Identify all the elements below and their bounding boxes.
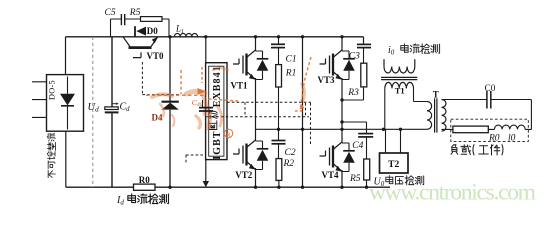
svg-text:C2: C2 — [285, 148, 296, 158]
wire VT1 emitter to node A — [255, 82, 257, 129]
transformer T (output) — [427, 90, 446, 133]
svg-text:T1: T1 — [395, 85, 405, 95]
wire top DC bus — [66, 36, 364, 38]
label 不可控整流 (uncontrolled rectifier), vertical — [47, 133, 55, 178]
label load (workpiece) — [451, 145, 458, 155]
svg-text:T2: T2 — [388, 160, 399, 170]
wire D4 column — [169, 37, 171, 187]
wire EXB column — [205, 37, 207, 183]
svg-text:R1: R1 — [285, 69, 297, 79]
wire center divider — [302, 37, 304, 187]
svg-text:T: T — [433, 90, 439, 100]
transistor VT0 (chopper) — [123, 37, 164, 61]
snubber R5 (lower right) — [349, 137, 370, 187]
svg-text:D4: D4 — [152, 113, 163, 123]
svg-text:VT0: VT0 — [147, 51, 165, 61]
snubber capacitor C5 — [105, 8, 141, 37]
svg-text:VT2: VT2 — [235, 170, 253, 180]
wire load loop top — [442, 100, 532, 130]
inductor L0 — [494, 125, 525, 129]
svg-text:R5: R5 — [129, 8, 141, 18]
resistor R6 (current sense) — [134, 175, 156, 191]
wire VT4 emitter to bottom bus — [341, 174, 343, 187]
svg-text:R3: R3 — [347, 88, 359, 98]
inductor L1 (filter choke) — [174, 24, 197, 37]
small capacitor C40 — [199, 108, 213, 111]
diode D0 (freewheel across VT0) — [135, 26, 158, 37]
wire bottom DC bus — [66, 186, 390, 188]
diode D4 (freewheel) — [152, 102, 179, 123]
svg-text:R2: R2 — [283, 159, 295, 169]
svg-text:l0: l0 — [508, 134, 516, 144]
wire C4 tie — [342, 122, 367, 133]
wire R3 tie — [342, 99, 364, 101]
dashed load box — [451, 119, 529, 141]
svg-text:C0: C0 — [485, 84, 496, 94]
wire node A output rail — [256, 128, 428, 130]
snubber C4 — [352, 134, 373, 152]
label U0 voltage detection — [374, 176, 424, 188]
capacitor Cd (DC link) — [105, 37, 130, 187]
svg-text:VT1: VT1 — [231, 81, 249, 91]
snubber R2 — [276, 144, 294, 187]
svg-text:C5: C5 — [105, 8, 116, 18]
svg-text:R0: R0 — [488, 134, 500, 144]
snubber R3 — [347, 48, 367, 100]
dashed gate-drive lines — [142, 62, 311, 164]
transformer/module T2 leads — [386, 129, 401, 153]
svg-text:DO-5: DO-5 — [48, 80, 57, 100]
svg-text:EXB841: EXB841 — [212, 65, 223, 107]
orange annotation overlay — [146, 57, 311, 138]
wire thin dashed vertical (DC link) — [92, 37, 94, 187]
svg-text:VT3: VT3 — [318, 75, 336, 85]
wire VT2 emitter to bottom bus — [255, 172, 257, 187]
svg-text:C4: C4 — [352, 141, 363, 151]
IGBT VT3 — [318, 37, 355, 85]
snubber resistor R5 (top) — [129, 8, 169, 37]
snubber C2 — [272, 129, 296, 158]
IGBT driver EXB841 box — [206, 63, 227, 160]
IGBT VT1 — [231, 37, 269, 91]
snubber C3 — [349, 37, 371, 62]
svg-text:C3: C3 — [349, 51, 360, 61]
label i0 current detection — [388, 44, 440, 56]
IGBT VT4 — [320, 141, 355, 180]
snubber R1 — [276, 48, 297, 130]
resistor R0 — [453, 126, 488, 133]
svg-text:R5: R5 — [349, 174, 361, 184]
svg-text:C1: C1 — [286, 54, 297, 64]
svg-text:www.cntronics.com: www.cntronics.com — [369, 180, 536, 206]
IGBT VT2 — [233, 129, 268, 180]
transformer T1 (current sense) — [381, 59, 427, 129]
wire node B vertical — [341, 82, 343, 141]
module T2 — [380, 153, 409, 173]
capacitor C0 — [485, 84, 496, 109]
svg-text:D0: D0 — [147, 26, 158, 36]
svg-text:VT4: VT4 — [322, 170, 340, 180]
svg-text:IGBT: IGBT — [212, 130, 223, 159]
rectifier bridge DO-5 (uncontrolled) — [32, 37, 84, 187]
snubber C1 — [271, 37, 297, 65]
svg-text:R0: R0 — [139, 175, 150, 185]
label Id current detection — [116, 194, 168, 207]
wire load loop bottom — [442, 128, 532, 130]
